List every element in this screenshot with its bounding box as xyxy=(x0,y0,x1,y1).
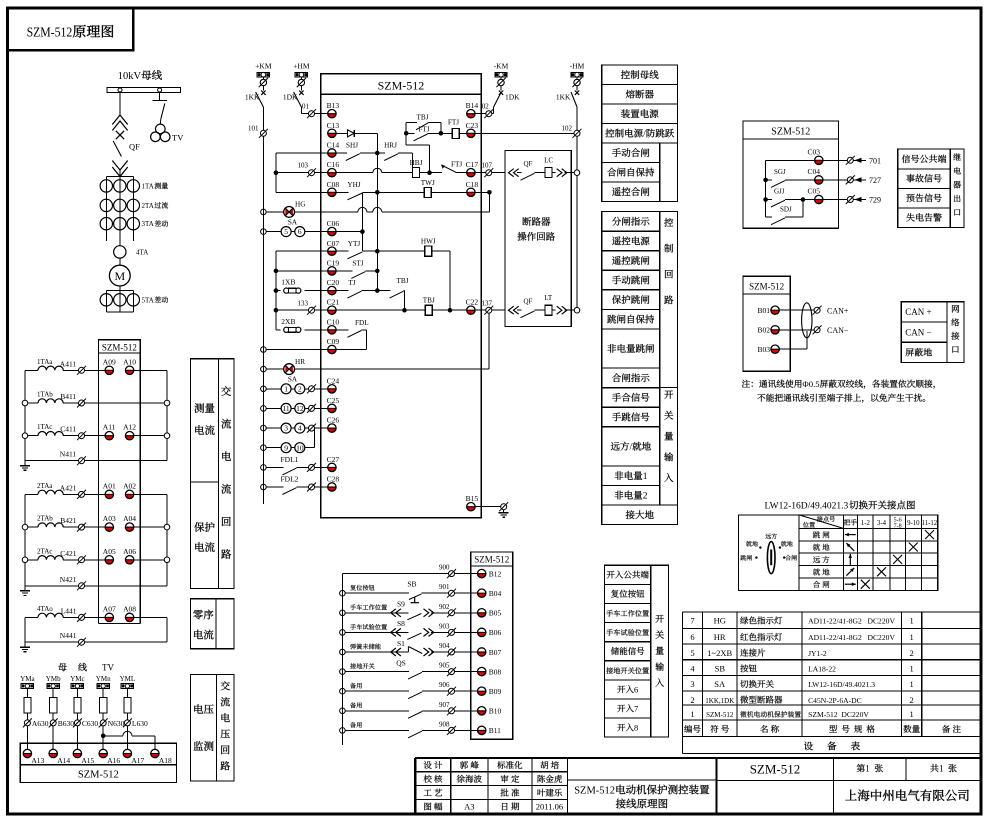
contact FTJ 2 xyxy=(430,172,442,174)
wire xyxy=(85,402,168,404)
svg-text:1DK: 1DK xyxy=(505,93,520,102)
wire xyxy=(405,133,407,145)
wire xyxy=(24,494,26,585)
node L630 xyxy=(124,720,130,726)
svg-text:B09: B09 xyxy=(489,687,502,696)
svg-text:2: 2 xyxy=(910,648,914,658)
output 729 xyxy=(823,199,847,201)
svg-text:QF: QF xyxy=(524,298,533,306)
svg-text:/: / xyxy=(630,443,633,453)
svg-text:HG: HG xyxy=(295,201,305,209)
svg-text:A08: A08 xyxy=(123,604,136,613)
svg-text:A15: A15 xyxy=(81,756,94,765)
wire xyxy=(134,493,167,495)
output 727 xyxy=(823,179,847,181)
svg-text:SZM-512: SZM-512 xyxy=(771,127,810,138)
svg-text:2TAb: 2TAb xyxy=(37,515,53,523)
svg-text:N441: N441 xyxy=(60,631,77,640)
svg-text:FDL: FDL xyxy=(355,319,369,327)
wire xyxy=(276,250,328,252)
contact SHJ xyxy=(336,152,347,154)
svg-text:1: 1 xyxy=(643,472,648,482)
svg-text:LW12-16D/49.4021.3: LW12-16D/49.4021.3 xyxy=(765,502,849,512)
svg-text:3: 3 xyxy=(690,679,694,689)
svg-text:B08: B08 xyxy=(489,667,502,676)
wire xyxy=(101,734,106,739)
terminal A15 xyxy=(73,754,81,758)
svg-text:C09: C09 xyxy=(327,337,340,346)
svg-text:B411: B411 xyxy=(60,392,76,401)
label box 保护电流 xyxy=(191,482,219,589)
trip coil circuit xyxy=(509,306,514,314)
svg-text:2TAc: 2TAc xyxy=(37,547,52,555)
svg-text:C24: C24 xyxy=(327,376,340,385)
svg-text:A01: A01 xyxy=(103,481,116,490)
svg-text:C22: C22 xyxy=(466,298,479,307)
svg-text:2TA: 2TA xyxy=(142,202,154,210)
svg-text:-KM: -KM xyxy=(494,62,509,71)
company name xyxy=(845,790,857,801)
breaker QF symbol xyxy=(112,115,127,125)
CT 1TAc xyxy=(25,435,38,437)
wire xyxy=(106,311,133,313)
relay coil HWJ xyxy=(376,250,378,252)
terminal B11 xyxy=(478,730,486,734)
diode xyxy=(348,130,355,137)
svg-text:1~2XB: 1~2XB xyxy=(707,648,732,658)
svg-text:TBJ: TBJ xyxy=(397,277,409,285)
note text xyxy=(742,380,750,388)
svg-text:12: 12 xyxy=(296,404,304,413)
node CAN- xyxy=(814,327,820,333)
node 107 xyxy=(475,172,486,174)
parts table 设备表 xyxy=(683,611,982,613)
svg-text:103: 103 xyxy=(298,161,309,169)
CT 1TA xyxy=(100,180,112,192)
node N630 xyxy=(100,720,106,726)
wire xyxy=(134,559,167,561)
svg-text:TJ: TJ xyxy=(348,279,355,287)
wire xyxy=(488,313,490,369)
CT 1TAa xyxy=(25,369,38,371)
ground xyxy=(24,642,26,647)
svg-text:M: M xyxy=(115,269,126,283)
svg-text:907: 907 xyxy=(439,701,450,709)
svg-text:904: 904 xyxy=(439,642,450,650)
svg-text:9: 9 xyxy=(284,443,288,452)
svg-text:B01: B01 xyxy=(758,306,771,315)
wire xyxy=(134,616,167,618)
wire xyxy=(119,286,121,291)
svg-text:A3: A3 xyxy=(464,802,474,812)
handle diagram xyxy=(767,542,775,574)
contact switch xyxy=(406,710,409,712)
svg-text:TV: TV xyxy=(102,663,114,673)
svg-text:SZM-512: SZM-512 xyxy=(378,79,425,93)
node on busbar xyxy=(118,88,122,92)
CT 1TAb xyxy=(25,402,38,404)
svg-text:1: 1 xyxy=(910,664,914,674)
svg-text:906: 906 xyxy=(439,681,450,689)
wire xyxy=(354,132,377,134)
input row B12 xyxy=(342,573,448,575)
svg-text:A06: A06 xyxy=(123,547,136,556)
node 137 xyxy=(475,309,486,311)
wire xyxy=(475,191,489,193)
svg-text:HRJ: HRJ xyxy=(384,142,397,150)
svg-text:B06: B06 xyxy=(489,628,502,637)
wire xyxy=(475,132,574,134)
svg-text:C07: C07 xyxy=(327,239,340,248)
wire secondary bus xyxy=(361,192,363,251)
svg-text:C13: C13 xyxy=(327,121,340,130)
svg-text:2: 2 xyxy=(643,492,648,502)
svg-text:YMn: YMn xyxy=(96,675,111,683)
CT 2TAb xyxy=(25,526,38,528)
cell 共1张 xyxy=(930,764,938,772)
svg-text:A05: A05 xyxy=(103,547,116,556)
contact YTJ xyxy=(336,250,348,252)
svg-text:A630: A630 xyxy=(32,719,49,728)
svg-text:SHJ: SHJ xyxy=(346,142,358,150)
svg-text:HG: HG xyxy=(714,616,726,626)
node CAN+ xyxy=(814,307,820,313)
wire left rail xyxy=(262,136,264,504)
wire xyxy=(134,369,167,371)
handle arrows xyxy=(845,534,856,536)
svg-text:102: 102 xyxy=(562,125,573,133)
svg-text:A09: A09 xyxy=(103,357,116,366)
svg-text:SB: SB xyxy=(407,580,416,589)
svg-text:6: 6 xyxy=(298,227,302,236)
svg-text:1: 1 xyxy=(910,709,914,719)
wire xyxy=(336,231,362,233)
node terminal C27 xyxy=(309,464,315,470)
svg-text:SZM-512: SZM-512 xyxy=(574,786,615,797)
svg-text:C23: C23 xyxy=(466,121,479,130)
box 断路器操作回路 xyxy=(505,151,571,327)
svg-text:908: 908 xyxy=(439,720,450,728)
svg-text:A07: A07 xyxy=(103,604,116,613)
svg-text:C26: C26 xyxy=(327,416,340,425)
svg-text:-HM: -HM xyxy=(570,62,585,71)
svg-text:6: 6 xyxy=(690,632,694,642)
svg-text:C05: C05 xyxy=(808,187,821,196)
terminal B10 xyxy=(478,711,486,715)
svg-text:5: 5 xyxy=(690,648,694,658)
input row B08 xyxy=(340,669,346,675)
wire xyxy=(134,526,167,528)
wire xyxy=(276,191,328,193)
svg-text:C04: C04 xyxy=(808,167,821,176)
title block center xyxy=(715,758,717,813)
terminal A17 xyxy=(123,754,131,758)
svg-text:/: / xyxy=(643,130,646,140)
node B630 xyxy=(50,720,56,726)
svg-text:YMc: YMc xyxy=(70,675,84,683)
motor M xyxy=(109,265,130,286)
terminal A13 xyxy=(23,754,31,758)
svg-text:FTJ: FTJ xyxy=(418,126,429,134)
node terminal C24 xyxy=(309,386,315,392)
contact FDL2 xyxy=(261,484,267,490)
svg-text:1: 1 xyxy=(939,764,944,774)
terminal B05 xyxy=(478,613,486,617)
switch SA contacts 11-12 xyxy=(261,406,267,412)
svg-text:A16: A16 xyxy=(107,756,120,765)
label box 交流电压回路 xyxy=(217,675,235,782)
disconnect switch xyxy=(161,104,165,120)
svg-text:LC: LC xyxy=(544,157,553,165)
switch SA contacts 1-2 xyxy=(261,386,267,392)
svg-text:C45N-2P-6A-DC: C45N-2P-6A-DC xyxy=(808,696,862,705)
switch SA contacts 3-4 xyxy=(261,425,267,431)
svg-text:C421: C421 xyxy=(60,549,77,558)
svg-text:5TA: 5TA xyxy=(142,296,154,304)
wire xyxy=(377,191,424,193)
wire xyxy=(295,368,489,370)
wire xyxy=(274,308,279,313)
wire xyxy=(295,211,358,213)
svg-text:1XB: 1XB xyxy=(281,278,295,287)
svg-text:A13: A13 xyxy=(31,756,44,765)
svg-text:1: 1 xyxy=(910,616,914,626)
svg-text:4TAo: 4TAo xyxy=(37,605,53,613)
input label table xyxy=(605,565,651,584)
voltage terminal box xyxy=(20,743,176,765)
wire TV branch xyxy=(159,93,161,101)
wire xyxy=(475,506,501,508)
svg-text:8: 8 xyxy=(634,723,638,733)
svg-text:107: 107 xyxy=(482,161,493,169)
wire xyxy=(119,171,121,177)
svg-text:1TA: 1TA xyxy=(142,182,154,190)
svg-text:2: 2 xyxy=(298,384,302,393)
CT 2TAa xyxy=(25,493,38,495)
svg-text:701: 701 xyxy=(869,156,881,165)
wire xyxy=(274,269,279,274)
svg-text:C17: C17 xyxy=(466,160,479,169)
terminal A14 xyxy=(49,754,57,758)
svg-text:3TA: 3TA xyxy=(142,220,154,228)
svg-text:C411: C411 xyxy=(60,425,76,434)
svg-text:QF: QF xyxy=(129,142,140,152)
contact YHJ xyxy=(336,191,348,193)
svg-text:YMb: YMb xyxy=(46,675,61,683)
svg-text:B421: B421 xyxy=(60,516,77,525)
svg-text:101: 101 xyxy=(248,125,259,133)
svg-text:SZM-512: SZM-512 xyxy=(750,762,801,777)
svg-text:10kV: 10kV xyxy=(118,71,142,82)
svg-text:LT: LT xyxy=(544,294,553,302)
terminal A18 xyxy=(151,754,159,758)
svg-text:C28: C28 xyxy=(327,475,340,484)
label box 交流电流回路 xyxy=(219,359,235,589)
svg-text:4: 4 xyxy=(298,424,302,433)
node A630 xyxy=(24,720,30,726)
svg-text:C16: C16 xyxy=(327,160,340,169)
svg-text:10: 10 xyxy=(296,443,304,452)
svg-text:1: 1 xyxy=(690,709,694,719)
wire signal bus xyxy=(765,160,767,217)
svg-text:C06: C06 xyxy=(327,219,340,228)
terminal B08 xyxy=(478,672,486,676)
svg-text:A18: A18 xyxy=(159,756,172,765)
wire xyxy=(336,309,404,311)
label box 电压监测 xyxy=(191,675,217,782)
wire xyxy=(24,617,26,642)
input row B07 xyxy=(340,649,346,655)
svg-text:S8: S8 xyxy=(397,619,405,628)
input row B10 xyxy=(340,708,346,714)
svg-text:+KM: +KM xyxy=(255,62,272,71)
input row B09 xyxy=(340,688,346,694)
svg-text:SZM-512: SZM-512 xyxy=(474,555,509,565)
svg-text:1TAb: 1TAb xyxy=(37,391,53,399)
svg-text:FTJ: FTJ xyxy=(448,119,459,127)
svg-text:4: 4 xyxy=(690,664,695,674)
wire xyxy=(276,152,328,154)
svg-text:TV: TV xyxy=(172,133,184,143)
wire xyxy=(276,172,309,174)
svg-text:7: 7 xyxy=(690,616,694,626)
svg-text:1: 1 xyxy=(865,764,870,774)
svg-text:4TA: 4TA xyxy=(136,249,148,257)
input row B06 xyxy=(340,630,346,636)
svg-text:CAN−: CAN− xyxy=(827,326,849,335)
label 开关量输入 vertical xyxy=(664,390,673,398)
CT 5TA xyxy=(100,294,112,306)
terminal B06 xyxy=(478,632,486,636)
svg-text:SA: SA xyxy=(714,679,726,689)
relay coil FTJ xyxy=(441,132,452,134)
svg-text:LA18-22: LA18-22 xyxy=(808,665,836,674)
contact TJ xyxy=(336,290,348,292)
svg-text:137: 137 xyxy=(482,300,493,308)
svg-text:9-10: 9-10 xyxy=(907,520,920,527)
svg-text:YML: YML xyxy=(120,675,136,683)
ground xyxy=(503,510,505,513)
wire xyxy=(276,329,280,331)
svg-text:C21: C21 xyxy=(327,298,340,307)
LW12 table xyxy=(738,515,937,591)
svg-text:A02: A02 xyxy=(123,481,136,490)
wire lower rail xyxy=(341,574,343,745)
wire xyxy=(274,288,279,293)
busbar xyxy=(107,88,181,93)
svg-text:1-2: 1-2 xyxy=(861,520,871,527)
svg-text:2011.06: 2011.06 xyxy=(536,802,563,812)
svg-text:C27: C27 xyxy=(327,455,340,464)
svg-text:SZM-512: SZM-512 xyxy=(78,770,119,781)
contact TBJ 2 xyxy=(377,290,390,292)
svg-text:L441: L441 xyxy=(61,606,77,615)
svg-text:CAN −: CAN − xyxy=(905,327,931,337)
box SZM-512 lower xyxy=(471,552,513,739)
terminal A16 xyxy=(99,754,107,758)
svg-text:901: 901 xyxy=(439,583,450,591)
CT 2TA xyxy=(100,199,112,211)
svg-text:S9: S9 xyxy=(397,600,405,609)
svg-text:SGJ: SGJ xyxy=(774,168,786,176)
svg-text:1TAc: 1TAc xyxy=(37,423,52,431)
node on -HM line xyxy=(574,307,580,313)
label 母线 TV xyxy=(58,663,66,671)
svg-text:905: 905 xyxy=(439,662,450,670)
svg-text:YTJ: YTJ xyxy=(348,240,361,248)
svg-text:6: 6 xyxy=(634,684,638,694)
svg-text:QF: QF xyxy=(524,160,533,168)
svg-text:HR: HR xyxy=(295,358,305,366)
svg-text:A411: A411 xyxy=(60,359,77,368)
svg-text:N421: N421 xyxy=(60,575,77,584)
svg-text:S1: S1 xyxy=(397,639,405,648)
wire xyxy=(166,494,168,585)
input row B05 xyxy=(340,610,346,616)
svg-text:L630: L630 xyxy=(132,719,148,728)
label 控制回路 vertical xyxy=(664,218,673,227)
title block SZM-512 cell xyxy=(833,758,835,813)
label 开关量输入 vertical 2 xyxy=(656,615,664,623)
node on -HM line xyxy=(574,170,580,176)
svg-text:FDL2: FDL2 xyxy=(281,475,299,484)
input row B04 xyxy=(340,590,346,596)
svg-text:A12: A12 xyxy=(123,423,136,432)
svg-text:11-12: 11-12 xyxy=(922,520,938,527)
svg-text:C14: C14 xyxy=(327,141,340,150)
AC terminal box SZM-512 xyxy=(99,340,141,353)
svg-text:A421: A421 xyxy=(60,483,77,492)
header diagonal xyxy=(799,515,843,529)
svg-text:900: 900 xyxy=(439,564,450,572)
svg-text:SDJ: SDJ xyxy=(780,206,792,214)
svg-text:A04: A04 xyxy=(123,514,136,523)
contact FDL xyxy=(336,329,348,331)
contact switch xyxy=(406,690,409,692)
svg-text:CAN+: CAN+ xyxy=(827,307,849,316)
node C630 xyxy=(74,720,80,726)
box SZM-512 xyxy=(20,765,176,783)
svg-text:FDL1: FDL1 xyxy=(281,455,299,464)
label table block B xyxy=(602,212,660,232)
svg-text:SB: SB xyxy=(715,664,726,674)
wire xyxy=(261,366,267,372)
cell 第1张 xyxy=(905,758,907,781)
CT 2TAc xyxy=(25,559,38,561)
contact switch xyxy=(406,729,409,731)
terminal B04 xyxy=(478,593,486,597)
terminal B12 xyxy=(478,574,486,578)
svg-text:B15: B15 xyxy=(466,494,479,503)
svg-text:A14: A14 xyxy=(57,756,70,765)
svg-text:STJ: STJ xyxy=(352,260,363,268)
CT 3TA xyxy=(100,218,112,230)
output 701 xyxy=(823,159,847,161)
svg-text:SZM-512: SZM-512 xyxy=(102,342,137,352)
svg-text:TWJ: TWJ xyxy=(421,179,435,187)
voltage transformer TV xyxy=(156,124,166,134)
svg-text:727: 727 xyxy=(869,176,881,185)
svg-text:1: 1 xyxy=(284,384,288,393)
svg-text:2TAa: 2TAa xyxy=(37,482,53,490)
ground xyxy=(24,586,26,591)
svg-text:B05: B05 xyxy=(489,609,502,618)
ground xyxy=(24,461,26,466)
svg-text:A11: A11 xyxy=(103,423,116,432)
svg-text:729: 729 xyxy=(869,196,881,205)
svg-text:01: 01 xyxy=(302,103,310,111)
svg-text:SZM-512: SZM-512 xyxy=(27,26,73,41)
